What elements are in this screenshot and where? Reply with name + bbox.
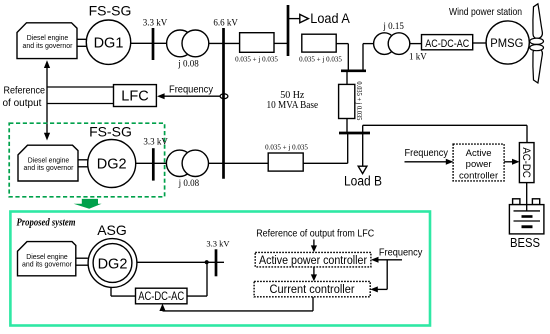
svg-text:DG2: DG2 [97,157,127,173]
svg-text:Load A: Load A [310,11,350,26]
svg-text:j 0.08: j 0.08 [177,58,199,68]
svg-text:Frequency: Frequency [169,85,213,96]
svg-text:0.035 + j 0.035: 0.035 + j 0.035 [265,143,308,151]
svg-text:0.035 + j 0.035: 0.035 + j 0.035 [355,81,363,120]
svg-text:Active power controller: Active power controller [259,255,367,267]
svg-text:of output: of output [3,98,42,109]
svg-text:3.3 kV: 3.3 kV [206,238,230,248]
svg-text:and its governor: and its governor [22,260,73,269]
svg-text:controller: controller [459,170,498,181]
svg-text:Proposed system: Proposed system [17,218,76,229]
svg-text:FS-SG: FS-SG [89,3,132,19]
svg-text:AC-DC: AC-DC [520,147,532,178]
svg-text:0.035 + j 0.035: 0.035 + j 0.035 [235,56,278,64]
svg-text:AC-DC-AC: AC-DC-AC [425,38,469,50]
svg-text:Wind power station: Wind power station [449,6,522,18]
svg-text:Current controller: Current controller [270,284,355,296]
svg-text:0.035 + j 0.035: 0.035 + j 0.035 [299,55,342,63]
svg-text:power: power [466,159,492,170]
svg-text:AC-DC-AC: AC-DC-AC [138,291,184,303]
svg-text:6.6 kV: 6.6 kV [213,18,238,28]
svg-text:DG1: DG1 [94,35,124,51]
svg-text:and its governor: and its governor [23,41,74,50]
svg-text:j 0.15: j 0.15 [382,21,404,31]
svg-text:DG2: DG2 [98,256,128,272]
svg-text:FS-SG: FS-SG [89,124,132,140]
svg-text:10 MVA Base: 10 MVA Base [267,100,319,111]
svg-text:Frequency: Frequency [405,148,449,159]
svg-text:BESS: BESS [510,236,540,250]
svg-text:and its governor: and its governor [24,163,75,172]
svg-text:Reference of output from LFC: Reference of output from LFC [256,228,374,239]
svg-text:Load B: Load B [344,174,382,189]
svg-text:3.3 kV: 3.3 kV [143,137,168,147]
svg-text:j 0.08: j 0.08 [178,178,200,188]
svg-text:3.3 kV: 3.3 kV [143,18,168,28]
svg-text:Frequency: Frequency [379,248,423,259]
svg-text:PMSG: PMSG [490,36,523,50]
svg-text:Reference: Reference [4,86,46,97]
svg-text:ASG: ASG [97,222,127,238]
svg-text:Active: Active [466,148,492,159]
svg-text:LFC: LFC [121,89,148,105]
svg-text:1 kV: 1 kV [409,52,427,62]
